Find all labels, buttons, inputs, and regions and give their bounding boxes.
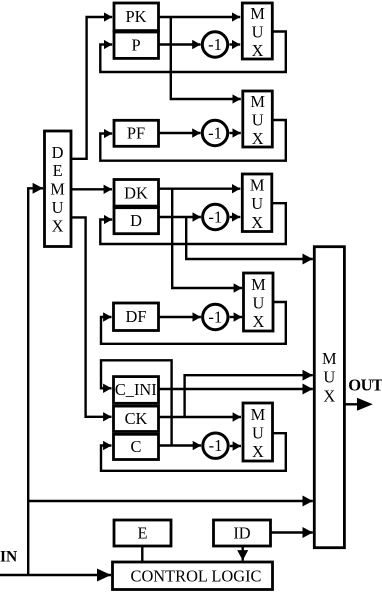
wire DEMUX out2 to DK [71,188,112,190]
inverter 3 [203,204,228,229]
wire inverter 5 to MUX5 [230,445,241,447]
wire PK to MUX1 [159,16,241,18]
mux MUX4 [244,273,274,331]
wire C_INI to big MUX [159,388,313,390]
demux DEMUX [45,131,72,247]
wire E to CONTROL LOGIC [141,546,143,562]
mux MUX2 [243,91,272,148]
svg-text:U: U [251,194,263,213]
svg-text:M: M [251,275,266,294]
wire DK to MUX3 [159,187,241,189]
wire inverter 4 to MUX4 [230,316,242,318]
inverter 2 [202,120,227,145]
wire inverter 1 to MUX1 [229,43,240,45]
svg-text:U: U [323,368,335,387]
wire DF to inverter 4 [159,316,201,318]
wire DEMUX out3 to CK [71,217,112,416]
svg-text:-1: -1 [208,35,222,54]
block CONTROL LOGIC [113,562,273,590]
wire PF to inverter 2 [159,132,201,134]
register E [114,520,171,546]
svg-text:M: M [322,349,337,368]
wire IN branch up to DEMUX [28,188,43,575]
svg-text:DF: DF [126,307,147,326]
svg-text:M: M [250,176,265,195]
svg-text:U: U [252,294,264,313]
register PF [114,120,159,146]
wire DEMUX out1 to PK [71,17,112,159]
svg-text:-1: -1 [208,308,222,327]
wire branch DK to MUX4 [172,189,242,288]
wire MUX5 feedback loop to C [101,433,286,471]
wire branch D to big MUX [186,217,313,259]
svg-text:X: X [52,216,64,235]
inverter 4 [203,304,228,329]
svg-text:IN: IN [0,549,17,566]
inverter 1 [202,32,227,57]
svg-text:D: D [130,211,142,230]
wire IN branch to big MUX [28,500,313,502]
svg-text:U: U [252,424,264,443]
svg-text:-1: -1 [208,208,222,227]
register C [114,434,159,459]
svg-text:U: U [52,198,64,217]
svg-text:X: X [252,41,264,60]
register C_INI [114,377,159,404]
wire OUT from big MUX [344,403,357,405]
svg-text:OUT: OUT [348,375,382,394]
svg-text:E: E [137,523,147,542]
wire D to inverter 3 [159,216,201,218]
wire ID down to CONTROL LOGIC [241,546,243,561]
register P [114,32,159,58]
wire P to inverter 1 [159,43,201,45]
register D [114,208,159,234]
svg-text:-1: -1 [209,436,223,455]
register DF [114,303,159,331]
svg-text:PF: PF [127,124,145,143]
wire C to inverter 5 [159,444,202,446]
wire inverter 3 to MUX3 [230,216,241,218]
svg-text:PK: PK [126,7,147,26]
svg-text:E: E [53,161,63,180]
svg-text:C: C [131,437,142,456]
wire MUX1 feedback loop to P [100,32,285,73]
svg-text:U: U [252,111,264,130]
wire ID to big MUX [271,531,313,533]
svg-text:X: X [252,442,264,461]
svg-text:U: U [252,23,264,42]
svg-text:CONTROL LOGIC: CONTROL LOGIC [131,566,262,585]
mux big MUX [314,247,344,548]
svg-text:M: M [250,92,265,111]
svg-text:P: P [131,35,140,54]
wire branch CK to big MUX [185,375,313,417]
svg-text:CK: CK [125,409,148,428]
svg-text:M: M [250,4,265,23]
svg-text:DK: DK [124,183,148,202]
svg-text:ID: ID [233,523,250,542]
mux MUX3 [242,174,271,232]
register PK [114,3,159,31]
svg-text:X: X [252,129,264,148]
svg-text:X: X [323,386,335,405]
svg-text:X: X [251,213,263,232]
inverter 5 [203,433,228,458]
svg-text:X: X [252,312,264,331]
register DK [114,180,159,207]
register ID [214,520,271,546]
svg-text:M: M [251,405,266,424]
wire MUX2 feedback loop to PF [100,120,285,161]
wire IN line to CONTROL LOGIC [0,574,111,576]
wire branch C to C_INI loop [101,360,172,445]
mux MUX1 [242,3,272,60]
wire MUX3 feedback loop to D [100,203,285,244]
svg-text:C_INI: C_INI [115,380,157,399]
wire MUX4 feedback loop to DF [101,302,286,344]
svg-text:D: D [52,143,64,162]
wire CK to MUX5 [159,416,242,418]
svg-text:-1: -1 [208,124,222,143]
register CK [114,406,159,431]
wire branch PK to MUX2 [171,17,241,99]
mux MUX5 [243,403,273,461]
svg-text:M: M [50,180,65,199]
wire inverter 2 to MUX2 [229,132,240,134]
